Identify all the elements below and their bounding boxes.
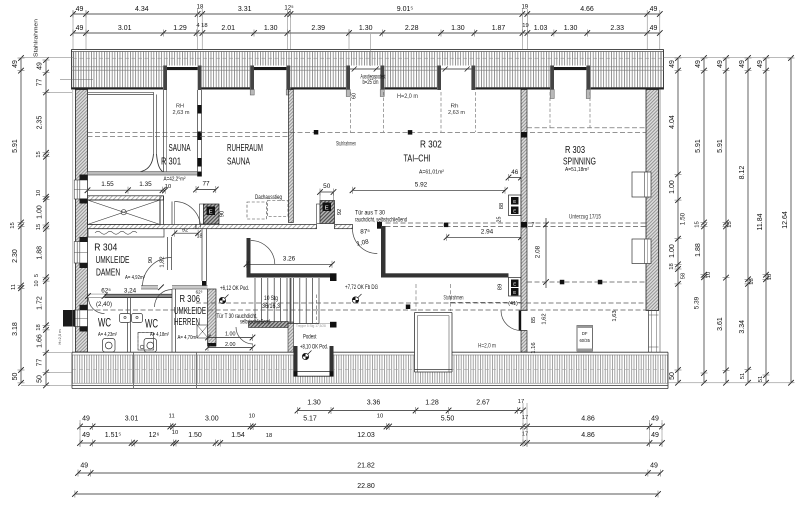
svg-text:5.91: 5.91	[12, 139, 19, 153]
svg-text:90: 90	[148, 257, 154, 263]
svg-text:87⁵: 87⁵	[360, 229, 370, 236]
svg-text:18: 18	[767, 274, 773, 280]
svg-text:60/35: 60/35	[579, 338, 590, 343]
svg-text:1.03: 1.03	[534, 25, 548, 32]
svg-text:2.28: 2.28	[405, 25, 419, 32]
svg-text:E: E	[325, 205, 329, 211]
svg-text:+6,12 OK Pod.: +6,12 OK Pod.	[220, 285, 249, 292]
svg-text:10: 10	[172, 430, 178, 436]
svg-text:18: 18	[749, 278, 755, 284]
svg-text:18: 18	[197, 234, 203, 240]
svg-text:3,24: 3,24	[124, 288, 137, 295]
svg-text:3.01: 3.01	[125, 416, 139, 423]
svg-text:2.39: 2.39	[311, 25, 325, 32]
svg-text:50: 50	[323, 183, 331, 190]
svg-text:51: 51	[758, 376, 764, 382]
svg-text:R 301: R 301	[161, 156, 181, 168]
svg-text:R 304: R 304	[94, 241, 117, 253]
svg-text:58: 58	[681, 273, 687, 279]
svg-text:1.88: 1.88	[37, 246, 44, 260]
svg-text:11.84: 11.84	[757, 213, 764, 230]
svg-text:b=25 cm: b=25 cm	[363, 80, 379, 86]
svg-text:1.87: 1.87	[492, 25, 506, 32]
svg-text:49: 49	[651, 432, 659, 439]
svg-text:77: 77	[37, 79, 44, 87]
svg-text:49: 49	[717, 60, 724, 68]
svg-text:2.94: 2.94	[481, 229, 494, 236]
svg-text:12.03: 12.03	[357, 432, 375, 439]
svg-text:SAUNA: SAUNA	[169, 142, 191, 154]
svg-text:90: 90	[220, 211, 226, 217]
svg-text:SPINNING: SPINNING	[563, 156, 596, 168]
svg-text:TAI–CHI: TAI–CHI	[404, 153, 431, 165]
svg-text:2,63 m: 2,63 m	[448, 110, 465, 116]
svg-text:2.33: 2.33	[610, 25, 624, 32]
svg-text:36/16,3: 36/16,3	[262, 303, 280, 310]
svg-text:10: 10	[165, 184, 171, 190]
svg-text:4.66: 4.66	[580, 6, 594, 13]
svg-text:18: 18	[669, 263, 675, 269]
svg-text:A= 4,92m²: A= 4,92m²	[125, 275, 145, 281]
svg-text:3.61: 3.61	[717, 317, 724, 331]
svg-text:18: 18	[266, 433, 272, 439]
svg-text:1,63: 1,63	[612, 310, 618, 321]
svg-text:Rh: Rh	[451, 104, 459, 110]
svg-text:+8,10 OK Pod.: +8,10 OK Pod.	[300, 344, 328, 351]
svg-text:1,62: 1,62	[542, 313, 548, 324]
svg-text:51: 51	[740, 373, 746, 379]
svg-text:7: 7	[532, 222, 535, 228]
svg-text:R 303: R 303	[565, 144, 585, 156]
svg-text:10: 10	[36, 190, 42, 196]
svg-text:E: E	[209, 209, 213, 215]
svg-text:12⁵: 12⁵	[284, 5, 294, 12]
svg-text:49: 49	[37, 62, 44, 70]
svg-text:49: 49	[76, 25, 84, 32]
svg-text:19: 19	[521, 5, 528, 11]
svg-text:89: 89	[498, 284, 504, 290]
svg-text:1.72: 1.72	[37, 296, 44, 310]
svg-text:10: 10	[249, 414, 255, 420]
svg-text:11: 11	[11, 284, 17, 290]
svg-text:A=61,01m²: A=61,01m²	[419, 170, 444, 176]
svg-text:A=42,2⁵m²: A=42,2⁵m²	[164, 176, 186, 183]
svg-text:49: 49	[82, 416, 90, 423]
svg-text:R 302: R 302	[420, 139, 442, 151]
svg-text:77: 77	[202, 181, 210, 188]
svg-text:(2,40): (2,40)	[96, 302, 112, 308]
svg-text:1.66: 1.66	[37, 334, 44, 348]
svg-text:RUHERAUM: RUHERAUM	[227, 142, 263, 154]
svg-text:77: 77	[37, 359, 44, 367]
svg-text:49: 49	[82, 432, 90, 439]
svg-text:1.30: 1.30	[451, 25, 465, 32]
svg-text:E: E	[513, 282, 516, 287]
svg-text:4.34: 4.34	[135, 6, 149, 13]
svg-text:4.04: 4.04	[669, 115, 676, 129]
svg-text:2.08: 2.08	[535, 245, 542, 258]
svg-text:15: 15	[727, 221, 733, 227]
svg-text:1.00: 1.00	[669, 180, 676, 194]
svg-text:62⁵: 62⁵	[196, 290, 203, 295]
svg-text:1.16: 1.16	[531, 342, 537, 353]
svg-text:RH: RH	[176, 104, 184, 110]
svg-text:17: 17	[522, 432, 528, 438]
svg-text:46: 46	[511, 169, 519, 176]
svg-text:2,63 m: 2,63 m	[173, 110, 190, 116]
svg-text:19: 19	[522, 23, 528, 29]
svg-text:3.18: 3.18	[12, 322, 19, 336]
svg-text:E: E	[513, 209, 516, 214]
svg-text:Tür aus T 30: Tür aus T 30	[355, 210, 385, 217]
svg-text:3.31: 3.31	[238, 6, 252, 13]
svg-text:selbstschließend: selbstschließend	[240, 320, 270, 326]
svg-text:1.30: 1.30	[564, 25, 578, 32]
svg-text:17: 17	[522, 415, 528, 421]
svg-text:17: 17	[518, 399, 524, 405]
svg-text:49: 49	[650, 463, 658, 470]
svg-text:49: 49	[80, 463, 88, 470]
svg-text:Dachausstieg: Dachausstieg	[255, 194, 282, 201]
svg-text:10: 10	[377, 414, 383, 420]
svg-text:3.00: 3.00	[205, 416, 219, 423]
svg-text:+7,72 OK Fb DG: +7,72 OK Fb DG	[345, 284, 378, 291]
svg-text:60: 60	[352, 93, 358, 99]
svg-text:1.35: 1.35	[139, 181, 152, 188]
svg-text:5.92: 5.92	[415, 182, 428, 189]
svg-text:2.00: 2.00	[225, 342, 236, 348]
svg-text:H=2,0 m: H=2,0 m	[397, 94, 418, 100]
svg-text:15: 15	[36, 224, 42, 230]
svg-text:25: 25	[497, 217, 503, 223]
svg-text:4.86: 4.86	[581, 416, 595, 423]
svg-text:50: 50	[37, 375, 44, 383]
svg-text:A= 4,18m²: A= 4,18m²	[150, 332, 169, 338]
svg-text:5.39: 5.39	[694, 296, 701, 309]
svg-text:11: 11	[169, 414, 175, 420]
svg-text:1.30: 1.30	[307, 400, 321, 407]
svg-text:E: E	[513, 290, 516, 295]
svg-text:5.91: 5.91	[695, 139, 702, 153]
svg-text:50: 50	[669, 372, 676, 380]
svg-text:UMKLEIDE: UMKLEIDE	[96, 254, 130, 266]
svg-text:49: 49	[650, 25, 658, 32]
svg-text:12.64: 12.64	[782, 211, 789, 229]
svg-text:85: 85	[531, 317, 537, 323]
svg-text:49: 49	[12, 60, 19, 68]
svg-text:15: 15	[36, 151, 42, 157]
svg-text:A=51,18m²: A=51,18m²	[565, 167, 589, 173]
svg-text:1.30: 1.30	[264, 25, 278, 32]
svg-text:15: 15	[10, 222, 16, 228]
svg-text:3.34: 3.34	[739, 320, 746, 334]
svg-text:10 Stg: 10 Stg	[264, 295, 278, 302]
svg-text:SAUNA: SAUNA	[227, 156, 250, 168]
svg-text:22.80: 22.80	[357, 483, 375, 490]
svg-text:Unterzug 17/15: Unterzug 17/15	[569, 214, 601, 221]
svg-text:HERREN: HERREN	[174, 316, 200, 328]
svg-text:1.55: 1.55	[101, 181, 114, 188]
svg-text:H=2,0 m: H=2,0 m	[478, 344, 496, 350]
svg-text:rauchdicht, selbstschließend: rauchdicht, selbstschließend	[355, 217, 407, 224]
svg-text:1.50: 1.50	[188, 432, 202, 439]
svg-text:1.28: 1.28	[425, 400, 439, 407]
svg-text:62⁵: 62⁵	[101, 288, 111, 295]
svg-text:49: 49	[651, 416, 659, 423]
svg-text:49: 49	[669, 60, 676, 68]
svg-text:1.50: 1.50	[680, 212, 687, 225]
svg-text:10: 10	[34, 280, 40, 286]
svg-text:3.26: 3.26	[283, 256, 296, 263]
svg-text:Stahlrahmen: Stahlrahmen	[34, 19, 40, 57]
svg-text:2.67: 2.67	[476, 400, 490, 407]
svg-text:2.30: 2.30	[12, 249, 19, 263]
svg-text:Treppe 5 Stg 17,5/28: Treppe 5 Stg 17,5/28	[296, 324, 326, 328]
svg-text:15: 15	[695, 221, 701, 227]
svg-text:1.54: 1.54	[231, 432, 245, 439]
svg-text:49: 49	[739, 60, 746, 68]
svg-text:1.29: 1.29	[173, 25, 187, 32]
svg-text:49: 49	[757, 60, 764, 68]
svg-text:5.50: 5.50	[441, 416, 455, 423]
svg-text:8.12: 8.12	[739, 166, 746, 180]
svg-text:88: 88	[499, 203, 505, 209]
svg-text:2.01: 2.01	[221, 25, 235, 32]
svg-text:H=2,0 m: H=2,0 m	[57, 329, 62, 345]
svg-text:12⁶: 12⁶	[149, 432, 160, 439]
svg-text:DF: DF	[582, 331, 588, 336]
svg-text:Podest: Podest	[303, 334, 317, 341]
svg-text:5.17: 5.17	[303, 416, 317, 423]
svg-text:49: 49	[695, 60, 702, 68]
svg-text:DAMEN: DAMEN	[96, 267, 120, 279]
svg-text:49: 49	[76, 6, 84, 13]
svg-text:A= 4,70m²: A= 4,70m²	[178, 335, 198, 341]
svg-text:4.86: 4.86	[581, 432, 595, 439]
svg-text:WC: WC	[98, 318, 111, 330]
svg-text:92: 92	[337, 209, 343, 215]
svg-text:2.35: 2.35	[37, 116, 44, 130]
svg-text:18: 18	[36, 324, 42, 330]
svg-text:3.01: 3.01	[118, 25, 132, 32]
svg-text:Stuhlrahmen: Stuhlrahmen	[336, 141, 356, 148]
svg-text:49: 49	[650, 6, 658, 13]
svg-text:(41): (41)	[508, 301, 518, 307]
svg-text:10: 10	[706, 272, 712, 278]
svg-text:1.00: 1.00	[669, 244, 676, 258]
svg-text:1,82: 1,82	[160, 256, 166, 267]
svg-text:5.91: 5.91	[717, 139, 724, 153]
svg-text:50: 50	[12, 373, 19, 381]
svg-text:WC: WC	[145, 319, 158, 331]
svg-text:1.88: 1.88	[695, 243, 702, 257]
svg-text:3.36: 3.36	[367, 400, 381, 407]
svg-text:1.51⁵: 1.51⁵	[105, 432, 122, 439]
svg-text:5: 5	[34, 274, 40, 277]
svg-text:Stuhlrahmen: Stuhlrahmen	[444, 295, 464, 302]
svg-text:21.82: 21.82	[357, 463, 375, 470]
svg-text:A= 4,23m²: A= 4,23m²	[98, 332, 117, 338]
svg-text:E: E	[513, 199, 516, 204]
svg-text:1.30: 1.30	[359, 25, 373, 32]
svg-text:9.01⁵: 9.01⁵	[397, 6, 414, 13]
svg-text:1.00: 1.00	[225, 332, 236, 338]
svg-text:1.00: 1.00	[37, 205, 44, 219]
